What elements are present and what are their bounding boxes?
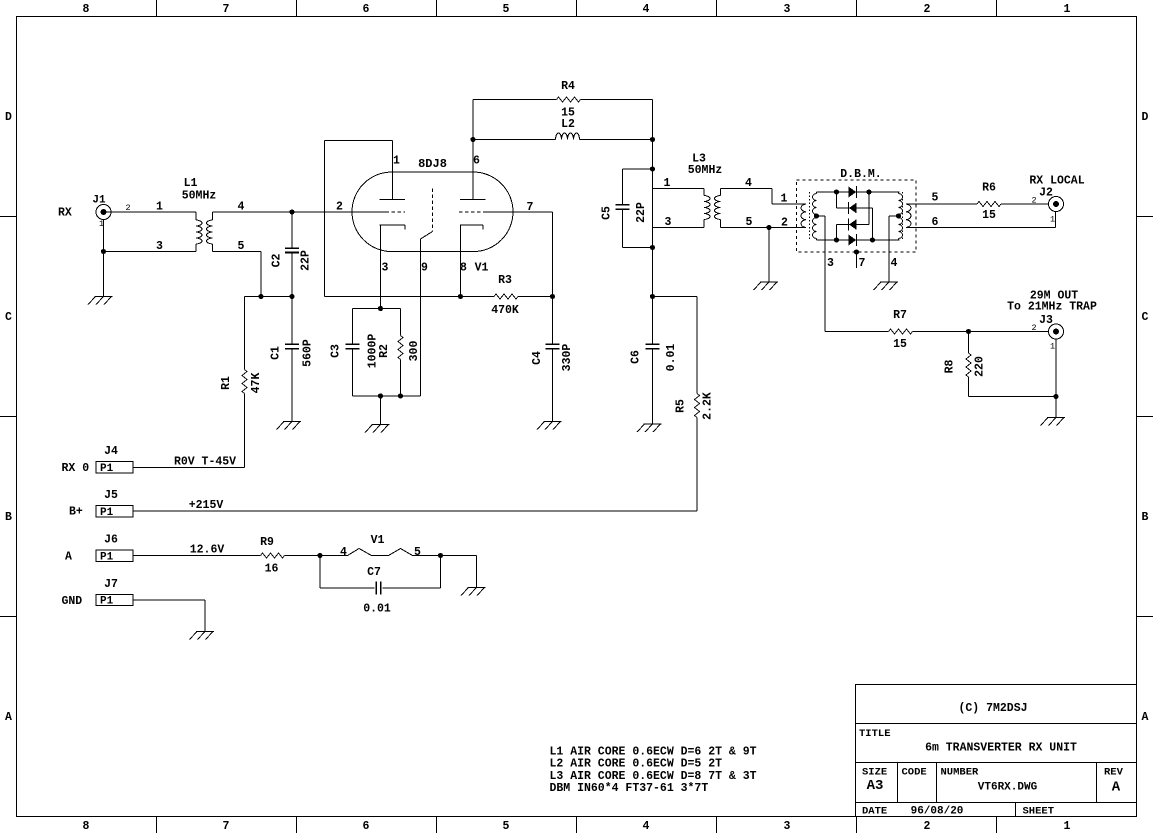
svg-text:R2: R2 xyxy=(378,344,391,358)
svg-text:4: 4 xyxy=(643,3,650,16)
inductor L2 xyxy=(473,118,653,140)
wire J3 pin1 xyxy=(1055,339,1057,397)
svg-text:R0V T-45V: R0V T-45V xyxy=(174,456,236,469)
junction C5 bottom xyxy=(650,245,655,250)
junction DBM left center tap xyxy=(814,213,819,218)
tube left grid dashes xyxy=(386,211,406,213)
svg-text:SHEET: SHEET xyxy=(1023,806,1055,818)
title block TITLE label xyxy=(859,728,891,740)
diode D4 xyxy=(849,234,857,246)
svg-text:1: 1 xyxy=(1064,820,1071,833)
capacitor C2 xyxy=(271,212,313,297)
junction cathode node xyxy=(258,294,263,299)
svg-text:VT6RX.DWG: VT6RX.DWG xyxy=(978,782,1038,794)
resistor R6 xyxy=(977,182,1001,223)
wire R7 to J3 xyxy=(913,331,1049,333)
wire L3 pin4 to DBM pin1 xyxy=(721,189,807,205)
junction ring top right xyxy=(866,189,871,194)
svg-text:96/08/20: 96/08/20 xyxy=(911,806,964,818)
diode D2 xyxy=(849,202,857,214)
junction heater left xyxy=(317,553,322,558)
capacitor C4 xyxy=(531,297,574,422)
diode D1 xyxy=(849,186,857,198)
ground at C4 xyxy=(537,422,562,430)
wire J7 to ground xyxy=(133,600,205,632)
DBM left primary winding xyxy=(801,204,806,227)
svg-text:J1: J1 xyxy=(92,195,106,207)
wire ring link right-a xyxy=(868,192,870,225)
title block copyright text xyxy=(958,702,1027,715)
svg-text:7: 7 xyxy=(527,201,534,214)
title block SIZE cell xyxy=(862,767,887,795)
svg-text:L3 AIR CORE 0.6ECW D=8 7T & 3T: L3 AIR CORE 0.6ECW D=8 7T & 3T xyxy=(550,770,757,783)
svg-text:A: A xyxy=(5,711,12,724)
capacitor C5 xyxy=(601,169,653,248)
wire DBM ring top row xyxy=(817,191,900,193)
svg-text:J7: J7 xyxy=(104,578,118,591)
connector J3 xyxy=(1049,324,1064,339)
svg-text:0.01: 0.01 xyxy=(363,603,391,616)
svg-text:50MHz: 50MHz xyxy=(182,190,217,203)
wire DBM ring bottom row xyxy=(817,239,900,241)
svg-text:GND: GND xyxy=(62,595,83,608)
svg-text:R8: R8 xyxy=(944,360,957,374)
title block NUMBER cell xyxy=(941,767,1038,794)
DBM pin3 label xyxy=(827,257,834,270)
junction C5 top xyxy=(650,166,655,171)
title block CODE cell xyxy=(902,767,927,779)
svg-text:J6: J6 xyxy=(104,534,118,547)
svg-text:0.01: 0.01 xyxy=(665,344,678,372)
connector J6 xyxy=(96,534,133,564)
svg-text:D.B.M.: D.B.M. xyxy=(840,168,881,181)
title block outline xyxy=(856,685,1137,817)
diode D3 xyxy=(849,219,857,231)
svg-text:D: D xyxy=(5,111,12,124)
tube left cathode xyxy=(380,225,406,230)
transformer L3 secondary winding xyxy=(715,189,721,228)
svg-text:(C) 7M2DSJ: (C) 7M2DSJ xyxy=(958,702,1027,715)
svg-text:7: 7 xyxy=(223,3,230,16)
svg-text:7: 7 xyxy=(859,257,866,270)
svg-text:R5: R5 xyxy=(675,399,688,413)
connector J2 xyxy=(1049,197,1064,212)
svg-text:6: 6 xyxy=(473,155,480,168)
junction ground tap xyxy=(378,393,383,398)
svg-text:1: 1 xyxy=(781,193,788,206)
tube pin3 cathode lead xyxy=(380,225,382,309)
DBM right core xyxy=(902,192,904,240)
wire cathode node rail xyxy=(245,296,293,298)
svg-text:470K: 470K xyxy=(491,304,519,317)
wire DBM pin5 to R6 xyxy=(906,203,977,205)
wire J4 to R1 xyxy=(133,467,245,469)
wire R3 right lead xyxy=(518,296,553,298)
wire L3 pin3 xyxy=(653,227,705,229)
DBM left core xyxy=(809,192,811,240)
connector J4 xyxy=(96,445,133,475)
junction L2 right xyxy=(650,137,655,142)
svg-text:A: A xyxy=(1142,711,1149,724)
svg-text:50MHz: 50MHz xyxy=(688,164,723,177)
wire J1 shield to L1 pin3 xyxy=(104,251,197,253)
tube right grid dashes xyxy=(459,211,483,213)
wire DBM pin7 stub xyxy=(856,252,858,268)
svg-text:2: 2 xyxy=(1031,196,1036,206)
node RX label xyxy=(58,207,72,220)
svg-text:RX 0: RX 0 xyxy=(62,462,90,475)
svg-text:B: B xyxy=(1142,511,1149,524)
svg-text:2: 2 xyxy=(924,820,931,833)
wire ring link right-b xyxy=(872,208,874,240)
heater V1 filament xyxy=(340,534,421,559)
capacitor C7 xyxy=(320,556,441,616)
wire DBM ring row3 xyxy=(837,224,870,226)
wire heater ground drop xyxy=(476,556,478,588)
svg-text:300: 300 xyxy=(408,341,421,362)
coil winding notes text xyxy=(550,746,757,796)
svg-text:RX LOCAL: RX LOCAL xyxy=(1029,175,1084,188)
transformer L3 labels xyxy=(688,153,723,178)
transformer L3 pin numbers xyxy=(664,177,753,229)
svg-text:R4: R4 xyxy=(561,80,575,93)
DBM left secondary winding xyxy=(813,192,817,240)
tube right cathode xyxy=(460,225,483,230)
svg-text:330P: 330P xyxy=(561,344,574,372)
svg-text:4: 4 xyxy=(643,820,650,833)
svg-text:4: 4 xyxy=(891,257,898,270)
tube pin8 cathode lead xyxy=(460,225,462,297)
svg-text:L1: L1 xyxy=(184,177,198,190)
svg-text:P1: P1 xyxy=(100,551,114,563)
junction L2 left xyxy=(470,137,475,142)
DBM pin1 pin2 labels xyxy=(781,193,789,230)
tube pin6 plate lead xyxy=(472,140,474,200)
svg-text:C5: C5 xyxy=(601,206,614,220)
node GND label xyxy=(62,595,83,608)
svg-text:2: 2 xyxy=(1031,323,1036,333)
svg-text:47K: 47K xyxy=(250,373,263,394)
node RX 0 label xyxy=(62,462,90,475)
wire DBM pin3 tap xyxy=(817,216,826,332)
junction R8 top xyxy=(966,329,971,334)
svg-text:C: C xyxy=(5,311,12,324)
wire main node vertical xyxy=(652,140,654,297)
tube pin1 plate lead xyxy=(392,141,394,200)
svg-text:J3: J3 xyxy=(1039,314,1053,327)
svg-text:L1 AIR CORE 0.6ECW D=6 2T & 9T: L1 AIR CORE 0.6ECW D=6 2T & 9T xyxy=(550,746,757,759)
svg-text:1: 1 xyxy=(1050,215,1055,225)
wire L3 pin1 xyxy=(653,188,705,190)
svg-text:6m TRANSVERTER RX UNIT: 6m TRANSVERTER RX UNIT xyxy=(925,742,1077,755)
wire DBM pin4 tap xyxy=(889,216,899,282)
svg-text:3: 3 xyxy=(827,257,834,270)
transformer L1 secondary winding xyxy=(207,212,213,252)
transformer L1 pin numbers xyxy=(156,201,245,254)
wire R4 to L2 right xyxy=(652,100,654,140)
title block REV cell xyxy=(1104,767,1124,796)
svg-text:B: B xyxy=(5,511,12,524)
wire ring link bottom-left xyxy=(836,225,838,241)
wire plate feedback top xyxy=(325,140,393,142)
svg-text:R7: R7 xyxy=(893,309,907,322)
wire R8 bottom xyxy=(969,396,1057,398)
resistor R3 xyxy=(491,274,519,317)
svg-text:3: 3 xyxy=(382,262,389,275)
junction C1 top xyxy=(289,294,294,299)
transformer L3 primary winding xyxy=(704,189,710,228)
svg-text:CODE: CODE xyxy=(902,767,927,779)
ground at DBM pin4 xyxy=(874,282,899,290)
ground at DBM pin2 xyxy=(754,282,779,290)
svg-text:J5: J5 xyxy=(104,489,118,502)
tube pin9 shield xyxy=(421,189,433,397)
svg-text:12.6V: 12.6V xyxy=(190,544,225,557)
wire J6 to R9 xyxy=(133,555,261,557)
svg-text:1: 1 xyxy=(1064,3,1071,16)
svg-text:1: 1 xyxy=(393,155,400,168)
junction DBM pin7 xyxy=(854,249,859,254)
svg-text:C3: C3 xyxy=(330,344,343,358)
DBM label xyxy=(840,168,881,181)
wire R4 to L2 left xyxy=(472,100,474,200)
svg-text:2: 2 xyxy=(781,217,788,230)
svg-text:+215V: +215V xyxy=(189,499,224,512)
resistor R7 xyxy=(889,309,913,351)
svg-text:To 21MHz TRAP: To 21MHz TRAP xyxy=(1007,301,1097,314)
svg-text:C1: C1 xyxy=(270,346,283,360)
wire plate feedback left xyxy=(324,141,326,297)
svg-text:J4: J4 xyxy=(104,445,118,458)
node A label xyxy=(65,551,72,564)
svg-text:22P: 22P xyxy=(635,202,648,223)
svg-text:R6: R6 xyxy=(982,182,996,195)
svg-text:5: 5 xyxy=(414,546,421,559)
wire ground tap xyxy=(380,396,382,425)
junction pin3 node xyxy=(378,306,383,311)
wire J5 B+ line xyxy=(133,510,697,512)
svg-text:6: 6 xyxy=(363,3,370,16)
ground at heater xyxy=(461,588,486,596)
svg-text:L2 AIR CORE 0.6ECW D=5 2T: L2 AIR CORE 0.6ECW D=5 2T xyxy=(550,758,723,771)
junction pin7 node xyxy=(550,294,555,299)
tube left plate xyxy=(380,199,406,201)
svg-text:SIZE: SIZE xyxy=(862,767,887,779)
ground at cathode block xyxy=(365,425,390,433)
J2 labels xyxy=(1029,175,1084,200)
tube type label 8DJ8 xyxy=(418,157,447,171)
svg-text:A: A xyxy=(1112,780,1121,796)
svg-text:C6: C6 xyxy=(630,350,643,364)
svg-text:8: 8 xyxy=(83,3,90,16)
ground at J3 xyxy=(1041,418,1066,426)
junction DBM right center tap xyxy=(896,213,901,218)
capacitor C3 xyxy=(330,309,380,397)
svg-text:220: 220 xyxy=(974,356,987,377)
capacitor C6 xyxy=(630,297,679,425)
svg-text:3: 3 xyxy=(156,240,163,253)
wire DBM ring row2 xyxy=(837,207,873,209)
wire J3 ground xyxy=(1055,397,1057,418)
svg-text:2: 2 xyxy=(336,201,343,214)
svg-text:1: 1 xyxy=(1050,342,1055,352)
svg-text:6: 6 xyxy=(363,820,370,833)
svg-text:R1: R1 xyxy=(220,376,233,390)
junction J1 shield xyxy=(101,249,106,254)
ground at C6 xyxy=(637,424,662,432)
title block title text xyxy=(925,742,1077,755)
junction C6 top xyxy=(650,294,655,299)
svg-text:A3: A3 xyxy=(867,778,884,794)
svg-text:P1: P1 xyxy=(100,463,114,475)
junction R2 bottom xyxy=(398,393,403,398)
resistor R1 xyxy=(220,297,263,468)
wire DBM pin2 ground xyxy=(768,228,770,283)
connector J7 xyxy=(96,578,133,608)
svg-text:C4: C4 xyxy=(531,351,544,365)
title block DATE cell xyxy=(862,806,963,818)
junction heater right xyxy=(438,553,443,558)
wire ring link top-left xyxy=(836,192,838,208)
junction J3 ground node xyxy=(1053,394,1058,399)
tube pin number labels xyxy=(336,155,534,275)
J3 labels xyxy=(1007,290,1097,328)
ground at J1 xyxy=(88,297,113,305)
svg-text:15: 15 xyxy=(982,209,996,222)
wire C3-R2 top rail xyxy=(353,308,401,310)
tube V1 envelope xyxy=(352,172,513,252)
svg-text:9: 9 xyxy=(421,262,428,275)
resistor R5 xyxy=(675,297,715,512)
svg-text:2: 2 xyxy=(924,3,931,16)
node B+ label xyxy=(69,506,83,519)
svg-text:7: 7 xyxy=(223,820,230,833)
resistor R4 xyxy=(557,80,581,120)
J1 pin labels xyxy=(99,203,131,229)
wire C3-R2 bottom rail xyxy=(353,395,421,397)
wire L1 pin5 xyxy=(213,252,262,297)
wire L3 pin5 to DBM pin2 xyxy=(721,227,807,229)
svg-text:R9: R9 xyxy=(260,536,274,549)
DBM pin7 label xyxy=(859,257,866,270)
resistor R8 xyxy=(944,332,987,397)
wire heater to ground xyxy=(413,555,477,557)
svg-text:RX: RX xyxy=(58,207,72,220)
wire pin7 grid xyxy=(483,212,553,297)
wire R6 to J2 xyxy=(1001,203,1049,205)
wire J1 pin1 down xyxy=(103,220,105,252)
DBM right secondary winding xyxy=(899,192,903,240)
svg-text:3: 3 xyxy=(784,3,791,16)
svg-text:L2: L2 xyxy=(561,118,575,131)
svg-text:5: 5 xyxy=(503,3,510,16)
wire DBM pin3 to R7 xyxy=(825,331,889,333)
junction pin8 node xyxy=(458,294,463,299)
capacitor C1 xyxy=(270,297,315,422)
junction ring bottom right xyxy=(870,237,875,242)
junction ring bottom left xyxy=(834,237,839,242)
junction C2 top xyxy=(289,209,294,214)
DBM dashed box xyxy=(797,180,917,252)
svg-text:5: 5 xyxy=(503,820,510,833)
net label 12.6V xyxy=(190,544,225,557)
svg-text:TITLE: TITLE xyxy=(859,728,891,740)
wire L1 pin4 to grid xyxy=(213,211,386,213)
tube right plate xyxy=(460,199,486,201)
DBM pin5 pin6 labels xyxy=(932,192,939,230)
svg-text:C7: C7 xyxy=(367,566,381,579)
connector J1 xyxy=(92,195,111,220)
svg-text:D: D xyxy=(1142,111,1149,124)
ground at J7 xyxy=(190,632,215,640)
wire to R5 xyxy=(653,296,698,298)
title block SHEET cell xyxy=(1023,806,1055,818)
wire J1 pin2 to L1 pin1 xyxy=(104,211,197,213)
resistor R2 xyxy=(378,309,421,397)
svg-text:560P: 560P xyxy=(302,339,315,367)
svg-text:J2: J2 xyxy=(1039,187,1053,200)
svg-text:B+: B+ xyxy=(69,506,83,519)
svg-text:REV: REV xyxy=(1104,767,1124,779)
J3 pin labels xyxy=(1031,323,1055,352)
svg-text:V1: V1 xyxy=(475,262,489,275)
DBM right primary winding xyxy=(906,204,911,227)
svg-text:3: 3 xyxy=(784,820,791,833)
transformer L1 labels xyxy=(182,177,217,203)
svg-text:16: 16 xyxy=(265,563,279,576)
net label R0V T-45V xyxy=(174,456,236,469)
wire R4 left lead xyxy=(473,99,557,101)
svg-text:P1: P1 xyxy=(100,507,114,519)
svg-text:4: 4 xyxy=(340,546,347,559)
wire J1 shield to ground xyxy=(103,252,105,297)
wire R9 to heater xyxy=(285,555,348,557)
J2 pin labels xyxy=(1031,196,1055,225)
svg-text:DATE: DATE xyxy=(862,806,887,818)
svg-text:8DJ8: 8DJ8 xyxy=(418,157,447,171)
svg-text:NUMBER: NUMBER xyxy=(941,767,980,779)
svg-text:2.2K: 2.2K xyxy=(702,392,715,420)
resistor R9 xyxy=(260,536,284,576)
connector J5 xyxy=(96,489,133,519)
svg-text:8: 8 xyxy=(460,262,467,275)
ground at C1 xyxy=(277,422,302,430)
svg-text:15: 15 xyxy=(893,338,907,351)
svg-text:5: 5 xyxy=(932,192,939,205)
svg-text:P1: P1 xyxy=(100,596,114,608)
svg-text:V1: V1 xyxy=(371,534,385,547)
wire R4 right lead xyxy=(581,99,653,101)
svg-text:C2: C2 xyxy=(271,254,284,268)
transformer L1 primary winding xyxy=(196,212,202,252)
junction ring top left xyxy=(834,189,839,194)
svg-text:1: 1 xyxy=(156,201,163,214)
svg-text:C: C xyxy=(1142,311,1149,324)
svg-text:22P: 22P xyxy=(300,250,313,271)
DBM pin4 label xyxy=(891,257,898,270)
net label +215V xyxy=(189,499,224,512)
svg-text:A: A xyxy=(65,551,72,564)
svg-text:DBM IN60*4 FT37-61 3*7T: DBM IN60*4 FT37-61 3*7T xyxy=(550,782,709,795)
svg-text:R3: R3 xyxy=(498,274,512,287)
wire DBM pin6 to J2 xyxy=(906,212,1056,228)
svg-text:8: 8 xyxy=(83,820,90,833)
junction DBM pin2 ground tap xyxy=(766,225,771,230)
wire R3 rail left xyxy=(325,296,495,298)
